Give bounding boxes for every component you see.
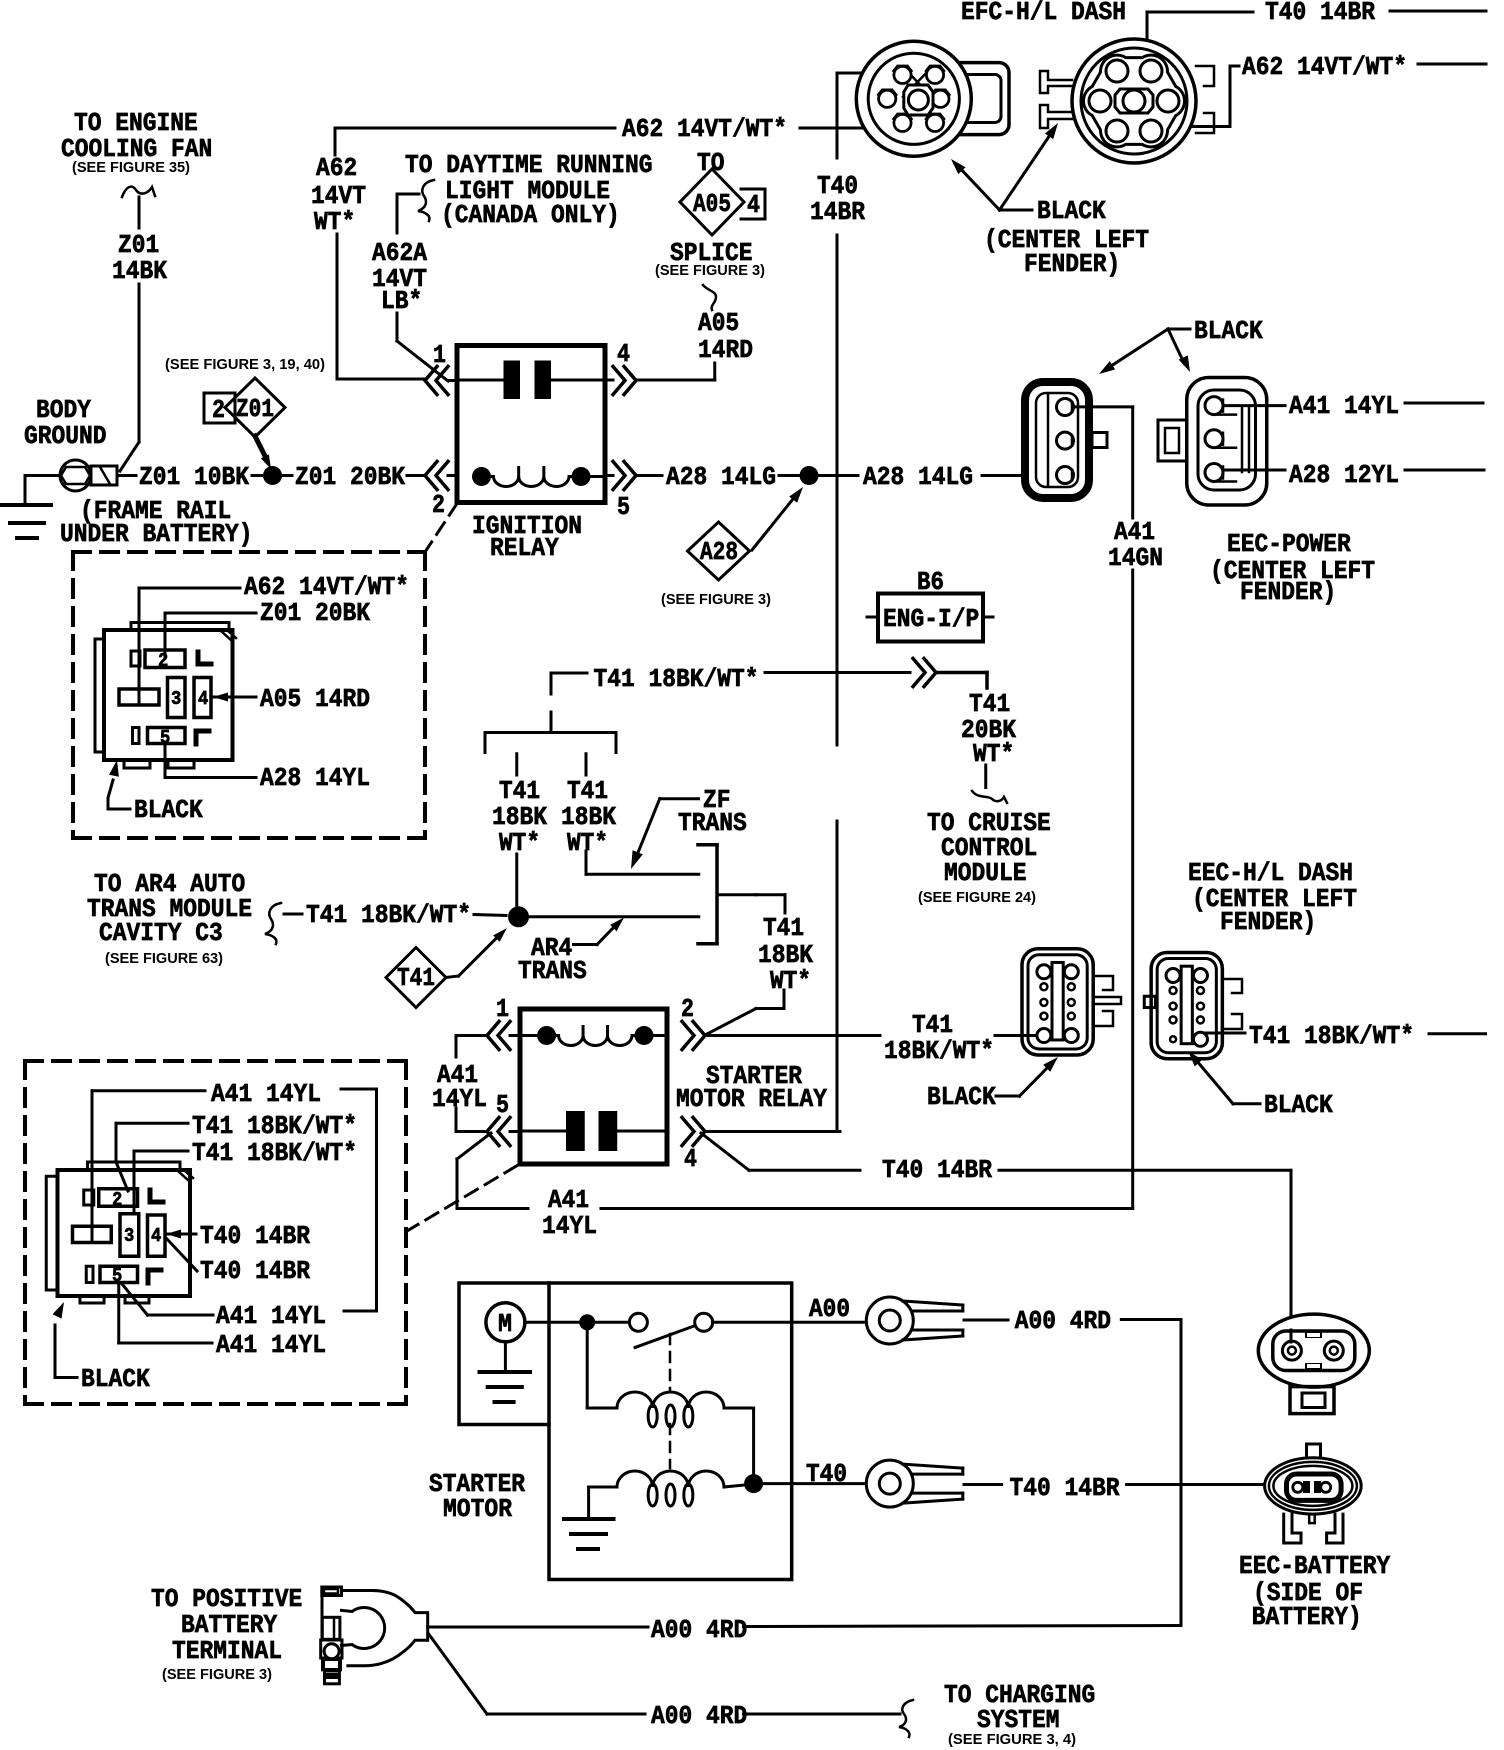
svg-text:5: 5 <box>617 492 630 522</box>
svg-text:A28 14LG: A28 14LG <box>863 462 973 492</box>
svg-text:A00: A00 <box>809 1294 850 1324</box>
svg-text:18BK/WT*: 18BK/WT* <box>884 1036 994 1066</box>
svg-text:WT*: WT* <box>770 966 811 996</box>
svg-text:A28 12YL: A28 12YL <box>1289 460 1399 490</box>
svg-text:A62 14VT/WT*: A62 14VT/WT* <box>622 114 787 144</box>
svg-text:3: 3 <box>124 1225 134 1247</box>
svg-text:BLACK: BLACK <box>1037 196 1106 226</box>
svg-text:1: 1 <box>433 340 446 370</box>
svg-text:CAVITY C3: CAVITY C3 <box>99 918 223 948</box>
svg-text:A05 14RD: A05 14RD <box>260 684 370 714</box>
svg-text:(SEE FIGURE 3): (SEE FIGURE 3) <box>162 1666 272 1683</box>
svg-text:T40: T40 <box>806 1459 847 1489</box>
svg-text:Z01 20BK: Z01 20BK <box>295 462 405 492</box>
svg-text:4: 4 <box>747 190 760 220</box>
svg-text:TRANS: TRANS <box>678 808 747 838</box>
svg-text:TERMINAL: TERMINAL <box>172 1636 282 1666</box>
svg-text:A05: A05 <box>698 308 739 338</box>
svg-text:4: 4 <box>684 1144 697 1174</box>
svg-text:3: 3 <box>171 688 181 710</box>
svg-text:2: 2 <box>212 395 225 425</box>
svg-text:BLACK: BLACK <box>1194 316 1263 346</box>
svg-text:T41: T41 <box>397 963 435 993</box>
svg-text:WT*: WT* <box>499 828 540 858</box>
svg-text:EEC-POWER: EEC-POWER <box>1227 529 1351 559</box>
svg-text:WT*: WT* <box>314 207 355 237</box>
svg-text:T41 18BK/WT*: T41 18BK/WT* <box>306 900 471 930</box>
svg-text:A00 4RD: A00 4RD <box>651 1615 747 1645</box>
svg-text:T40 14BR: T40 14BR <box>1265 0 1375 27</box>
svg-text:MOTOR: MOTOR <box>443 1494 512 1524</box>
svg-text:2: 2 <box>432 490 445 520</box>
svg-text:T41 18BK/WT*: T41 18BK/WT* <box>192 1111 357 1141</box>
svg-text:M: M <box>498 1309 512 1339</box>
svg-text:A28: A28 <box>700 537 738 567</box>
svg-text:T40 14BR: T40 14BR <box>1010 1473 1120 1503</box>
svg-text:Z01 10BK: Z01 10BK <box>139 462 249 492</box>
svg-text:EFC-H/L DASH: EFC-H/L DASH <box>961 0 1126 27</box>
svg-text:Z01 20BK: Z01 20BK <box>260 598 370 628</box>
svg-text:FENDER): FENDER) <box>1024 249 1120 279</box>
svg-text:T40 14BR: T40 14BR <box>200 1256 310 1286</box>
svg-text:A62: A62 <box>316 153 357 183</box>
svg-text:A28 14YL: A28 14YL <box>260 763 370 793</box>
svg-text:FENDER): FENDER) <box>1240 577 1336 607</box>
svg-text:(CANADA ONLY): (CANADA ONLY) <box>441 200 620 230</box>
svg-text:GROUND: GROUND <box>24 421 107 451</box>
svg-text:(SEE FIGURE 35): (SEE FIGURE 35) <box>72 159 190 176</box>
svg-text:1: 1 <box>496 994 509 1024</box>
svg-text:A41 14YL: A41 14YL <box>1289 391 1399 421</box>
svg-text:UNDER BATTERY): UNDER BATTERY) <box>60 519 253 549</box>
svg-text:(SEE FIGURE 3): (SEE FIGURE 3) <box>655 262 765 279</box>
svg-text:14YL: 14YL <box>542 1211 597 1241</box>
svg-text:TRANS: TRANS <box>518 956 587 986</box>
svg-text:EEC-BATTERY: EEC-BATTERY <box>1239 1551 1391 1581</box>
svg-text:LB*: LB* <box>381 286 422 316</box>
svg-text:(SEE FIGURE 3): (SEE FIGURE 3) <box>661 591 771 608</box>
svg-text:5: 5 <box>496 1090 509 1120</box>
svg-text:14RD: 14RD <box>698 335 753 365</box>
svg-text:A41 14YL: A41 14YL <box>216 1301 326 1331</box>
svg-text:14BR: 14BR <box>810 197 865 227</box>
svg-text:A41 14YL: A41 14YL <box>211 1079 321 1109</box>
svg-text:BLACK: BLACK <box>927 1082 996 1112</box>
svg-text:(SEE FIGURE 24): (SEE FIGURE 24) <box>918 889 1036 906</box>
svg-text:14BK: 14BK <box>112 256 167 286</box>
svg-text:A00 4RD: A00 4RD <box>651 1701 747 1731</box>
svg-text:BLACK: BLACK <box>134 795 203 825</box>
svg-text:A28 14LG: A28 14LG <box>666 462 776 492</box>
svg-text:T41 18BK/WT*: T41 18BK/WT* <box>1249 1021 1414 1051</box>
svg-text:Z01: Z01 <box>236 394 274 424</box>
svg-text:(SEE FIGURE 63): (SEE FIGURE 63) <box>105 950 223 967</box>
svg-text:T41 18BK/WT*: T41 18BK/WT* <box>594 664 759 694</box>
svg-text:A62 14VT/WT*: A62 14VT/WT* <box>1242 52 1407 82</box>
svg-text:FENDER): FENDER) <box>1220 907 1316 937</box>
svg-text:4: 4 <box>198 688 208 710</box>
svg-text:RELAY: RELAY <box>490 533 559 563</box>
svg-text:TO: TO <box>697 148 725 178</box>
svg-text:A00 4RD: A00 4RD <box>1015 1306 1111 1336</box>
svg-text:BATTERY): BATTERY) <box>1252 1602 1362 1632</box>
svg-text:(SEE FIGURE 3, 4): (SEE FIGURE 3, 4) <box>948 1731 1076 1748</box>
svg-text:T41: T41 <box>763 913 804 943</box>
svg-text:2: 2 <box>158 650 168 672</box>
svg-text:A41 14YL: A41 14YL <box>216 1330 326 1360</box>
svg-text:WT*: WT* <box>973 739 1014 769</box>
svg-text:2: 2 <box>681 994 694 1024</box>
svg-text:T40 14BR: T40 14BR <box>200 1221 310 1251</box>
svg-text:T40 14BR: T40 14BR <box>882 1155 992 1185</box>
svg-text:(SEE FIGURE 3, 19, 40): (SEE FIGURE 3, 19, 40) <box>165 356 325 373</box>
svg-text:MOTOR RELAY: MOTOR RELAY <box>676 1084 827 1114</box>
svg-text:T41 18BK/WT*: T41 18BK/WT* <box>192 1138 357 1168</box>
svg-text:MODULE: MODULE <box>944 858 1027 888</box>
svg-text:14YL: 14YL <box>432 1084 487 1114</box>
svg-text:4: 4 <box>617 339 630 369</box>
svg-text:A05: A05 <box>693 189 731 219</box>
svg-text:BLACK: BLACK <box>81 1364 150 1394</box>
svg-text:2: 2 <box>112 1189 122 1211</box>
svg-text:4: 4 <box>151 1225 161 1247</box>
svg-text:ENG-I/P: ENG-I/P <box>883 604 979 634</box>
svg-text:BLACK: BLACK <box>1264 1090 1333 1120</box>
svg-text:14GN: 14GN <box>1108 543 1163 573</box>
